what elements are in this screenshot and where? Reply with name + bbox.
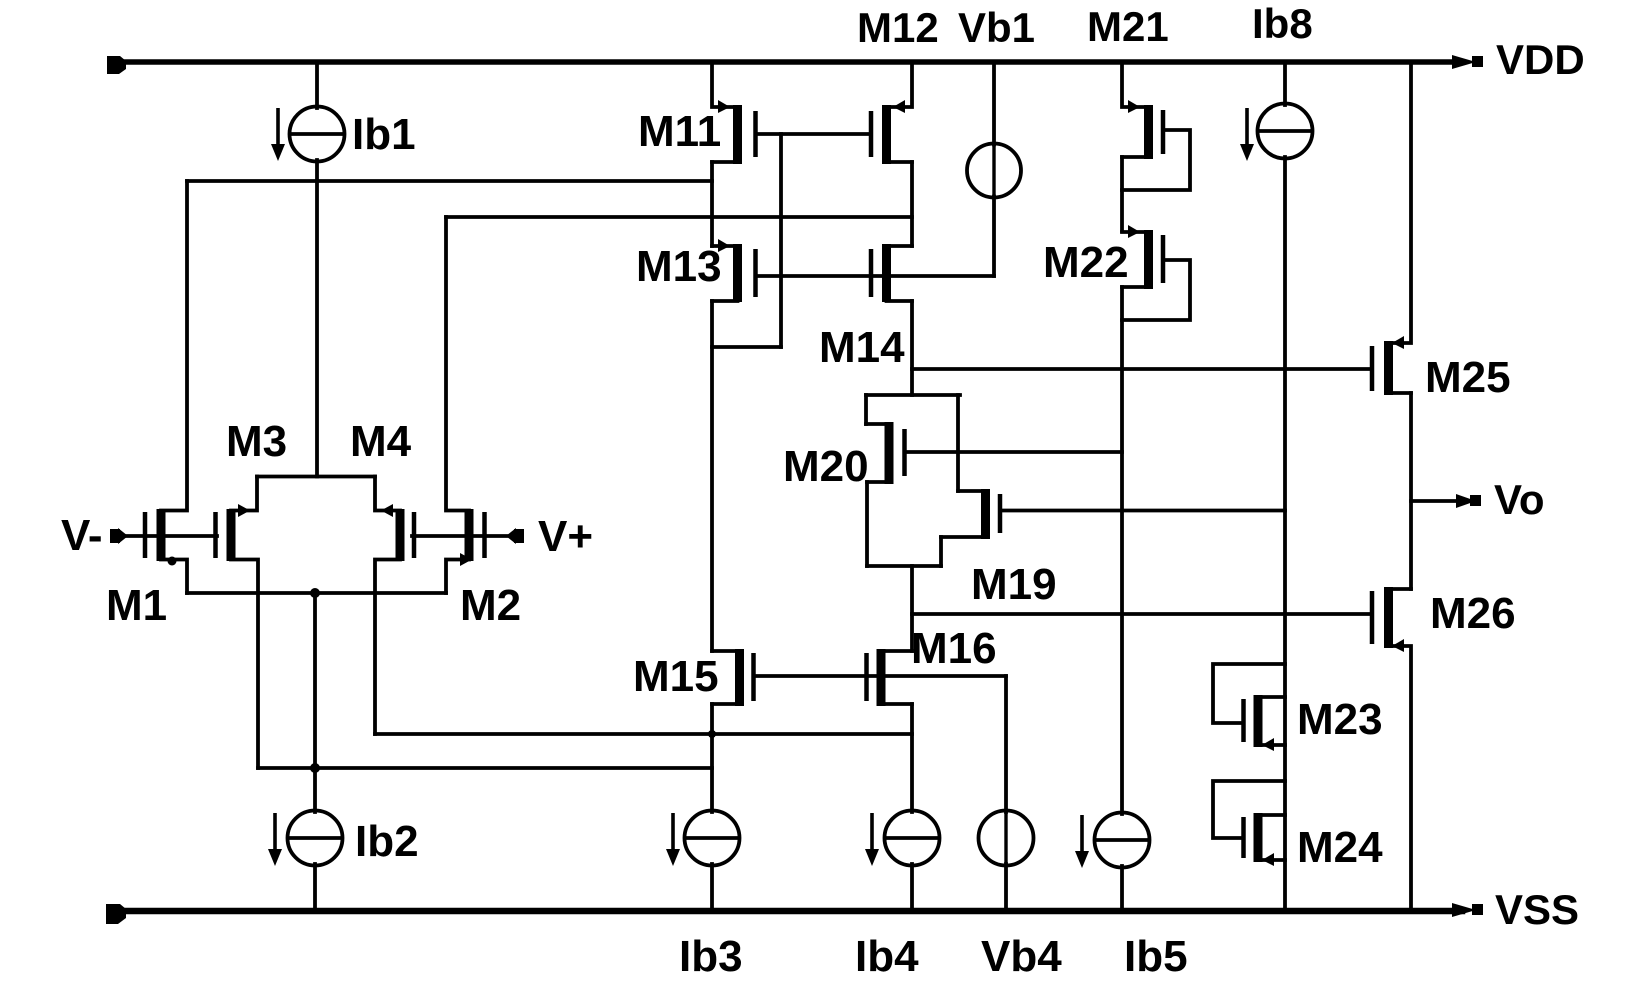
svg-text:M19: M19 <box>971 560 1057 609</box>
svg-text:Ib1: Ib1 <box>352 110 416 159</box>
svg-text:M13: M13 <box>636 242 722 291</box>
svg-text:M12: M12 <box>857 4 939 51</box>
svg-text:VSS: VSS <box>1495 886 1579 933</box>
svg-text:M20: M20 <box>783 442 869 491</box>
svg-text:Vo: Vo <box>1494 476 1545 523</box>
svg-text:M16: M16 <box>911 624 997 673</box>
svg-text:Vb4: Vb4 <box>981 932 1062 981</box>
svg-text:M21: M21 <box>1087 3 1169 50</box>
svg-text:M25: M25 <box>1425 353 1511 402</box>
svg-text:M11: M11 <box>638 107 721 156</box>
svg-text:M26: M26 <box>1430 589 1516 638</box>
svg-text:M15: M15 <box>633 652 719 701</box>
svg-text:Ib3: Ib3 <box>679 932 743 981</box>
svg-text:Ib8: Ib8 <box>1252 0 1313 47</box>
svg-text:M14: M14 <box>819 323 905 372</box>
svg-text:M3: M3 <box>226 417 287 466</box>
svg-text:Ib4: Ib4 <box>855 932 919 981</box>
svg-text:Vb1: Vb1 <box>958 4 1035 51</box>
svg-text:V-: V- <box>61 511 103 560</box>
svg-text:M4: M4 <box>350 417 412 466</box>
svg-text:M23: M23 <box>1297 695 1383 744</box>
svg-text:M22: M22 <box>1043 238 1129 287</box>
svg-text:M1: M1 <box>106 581 167 630</box>
svg-text:VDD: VDD <box>1496 36 1585 83</box>
svg-text:Ib5: Ib5 <box>1124 932 1188 981</box>
svg-text:Ib2: Ib2 <box>355 817 419 866</box>
svg-text:V+: V+ <box>538 512 593 561</box>
svg-text:M2: M2 <box>460 581 521 630</box>
svg-text:M24: M24 <box>1297 823 1383 872</box>
